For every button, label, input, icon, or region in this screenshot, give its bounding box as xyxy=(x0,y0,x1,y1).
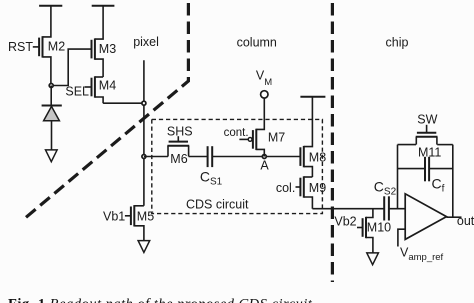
wire M9 to CS2 xyxy=(312,208,384,210)
photodiode D1 xyxy=(42,86,62,150)
svg-text:Vb1: Vb1 xyxy=(103,209,125,223)
wire RST gate lead xyxy=(33,46,39,48)
wire Cf right xyxy=(429,168,453,170)
transistor M5 xyxy=(131,205,144,241)
wire node A net xyxy=(212,156,300,158)
svg-text:SHS: SHS xyxy=(167,124,193,138)
wire cont gate lead xyxy=(239,138,248,140)
svg-text:M3: M3 xyxy=(99,42,116,56)
svg-text:col.: col. xyxy=(276,181,295,195)
capacitor CS2 xyxy=(384,196,389,220)
junction node A xyxy=(262,155,266,159)
junction column bus / CDS input xyxy=(142,155,146,159)
junction FD node xyxy=(49,84,53,88)
CDS circuit dashed box xyxy=(152,119,323,213)
svg-text:SW: SW xyxy=(417,113,437,127)
VDD rail for M8 xyxy=(300,96,325,98)
svg-text:chip: chip xyxy=(386,35,409,49)
transistor M10 xyxy=(363,209,373,253)
wire output xyxy=(447,216,462,218)
wire feedback left vertical xyxy=(397,145,399,209)
terminal V_M xyxy=(261,91,268,98)
svg-text:M6: M6 xyxy=(170,152,187,166)
svg-text:M9: M9 xyxy=(309,181,326,195)
transistor M6 xyxy=(167,136,189,156)
wire M11 right lead xyxy=(437,144,453,146)
ground (photodiode) xyxy=(46,150,58,162)
svg-text:out: out xyxy=(457,214,474,228)
junction column bus / M4 xyxy=(142,101,146,105)
svg-text:M4: M4 xyxy=(99,78,116,92)
transistor M9 xyxy=(300,176,312,208)
wire FD node to M3 gate xyxy=(51,49,91,85)
capacitor Cf xyxy=(425,157,429,182)
wire Cf left xyxy=(398,168,426,170)
transistor M8 xyxy=(300,97,312,177)
svg-text:M2: M2 xyxy=(48,40,65,54)
ground (M10 source) xyxy=(367,253,379,265)
wire Vb2 gate lead xyxy=(357,227,363,229)
wire M6 to CS1 xyxy=(189,156,208,158)
chip boundary dashed line xyxy=(331,0,334,282)
transistor M3 xyxy=(92,6,104,77)
svg-text:column: column xyxy=(237,35,277,49)
wire SEL gate lead xyxy=(85,86,92,88)
svg-text:Fig. 1 Readout path of the pro: Fig. 1 Readout path of the proposed CDS … xyxy=(8,297,313,303)
ground (M5 source) xyxy=(138,241,150,253)
wire bus to M6 xyxy=(144,156,168,158)
svg-text:pixel: pixel xyxy=(133,35,159,49)
VDD rail for M2 xyxy=(39,5,62,7)
wire Vb1 gate lead xyxy=(125,215,131,217)
svg-text:RST: RST xyxy=(8,40,33,54)
transistor M11 xyxy=(416,125,438,145)
svg-text:cont.: cont. xyxy=(224,127,249,139)
svg-text:CDS circuit: CDS circuit xyxy=(186,197,249,211)
svg-text:M5: M5 xyxy=(137,209,154,223)
svg-text:A: A xyxy=(260,158,269,172)
svg-text:Vb2: Vb2 xyxy=(334,214,356,228)
pixel boundary dashed line xyxy=(24,0,188,219)
wire M11 left lead xyxy=(398,144,417,146)
transistor M4 xyxy=(92,76,104,103)
wire non-inverting input V_amp_ref xyxy=(398,229,405,246)
VDD rail for M3 xyxy=(92,5,115,7)
svg-text:M7: M7 xyxy=(268,131,285,145)
transistor M2 xyxy=(39,6,51,86)
wire col gate lead xyxy=(296,186,301,188)
wire column bus xyxy=(143,60,145,206)
wire feedback right vertical xyxy=(452,145,454,218)
svg-text:M8: M8 xyxy=(309,150,326,164)
transistor M7 xyxy=(248,98,264,156)
capacitor CS1 xyxy=(208,146,213,167)
wire CS2 to op-amp xyxy=(389,208,405,210)
wire M4 source to column bus xyxy=(103,102,142,104)
svg-text:M10: M10 xyxy=(367,221,391,235)
op-amp U1 xyxy=(405,194,446,240)
